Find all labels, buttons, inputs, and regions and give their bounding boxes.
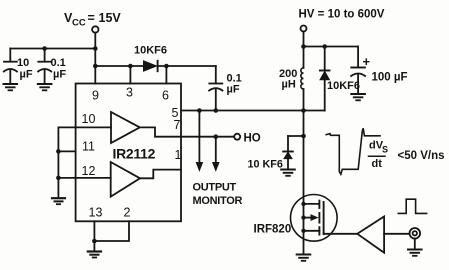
label 0.1 uF xyxy=(51,57,67,81)
svg-text:=: = xyxy=(88,11,95,25)
svg-text:S: S xyxy=(382,145,388,155)
terminal VCC xyxy=(92,26,98,32)
svg-text:15V: 15V xyxy=(99,11,122,25)
node HO monitor tap xyxy=(214,134,219,139)
wire pin 2 xyxy=(94,221,129,241)
node VS monitor tap xyxy=(197,108,202,113)
node VCC row junction xyxy=(93,64,98,69)
ground input bus xyxy=(52,198,65,204)
wire VCC vertical to pin 9 xyxy=(94,33,96,84)
pulse waveform input xyxy=(398,199,426,213)
wire top-left cap rail xyxy=(10,48,95,50)
svg-text:10KF6: 10KF6 xyxy=(134,45,167,57)
Q1 channel segments xyxy=(318,201,320,235)
wire pin 7 HO line xyxy=(181,136,234,138)
svg-text:12: 12 xyxy=(82,164,96,178)
wire HV rail xyxy=(304,46,359,48)
wire HV vertical xyxy=(303,32,305,47)
capacitor C1 10uF xyxy=(4,49,17,84)
svg-text:CC: CC xyxy=(72,18,86,29)
svg-text:11: 11 xyxy=(82,140,95,154)
svg-text:100 µF: 100 µF xyxy=(372,72,408,84)
svg-text:10: 10 xyxy=(82,112,96,126)
node pin 6 xyxy=(164,64,169,69)
node Q1 drain xyxy=(301,202,305,206)
probe arrow VS monitor xyxy=(196,111,202,171)
node C2 junction xyxy=(42,46,47,51)
wire VCC row to diode anode xyxy=(95,65,143,67)
label 0.1 uF (C3) xyxy=(227,73,242,96)
wire to ground xyxy=(93,241,95,251)
terminal HO xyxy=(234,134,240,140)
svg-text:µF: µF xyxy=(53,69,66,81)
wire to D3 xyxy=(288,135,304,137)
svg-text:µF: µF xyxy=(20,69,33,81)
ground under C1 xyxy=(4,84,18,90)
label dVs/dt fraction xyxy=(369,140,388,171)
svg-text:1: 1 xyxy=(175,148,182,162)
node pin13/2 junction xyxy=(92,239,97,244)
Q1 source bar xyxy=(304,230,320,232)
svg-text:µH: µH xyxy=(282,79,296,91)
node pin 3 xyxy=(128,64,133,69)
terminal HV xyxy=(301,26,307,32)
svg-text:13: 13 xyxy=(89,206,103,220)
capacitor C4 100uF xyxy=(351,47,365,94)
ground IC common xyxy=(88,252,101,258)
terminal J1 coax xyxy=(410,228,421,239)
buffer A1 (high side) xyxy=(111,112,140,143)
node VCC/cap junction xyxy=(93,46,98,51)
wire A2 output to pin 1 xyxy=(140,170,181,179)
node VS/L1 junction xyxy=(301,108,306,113)
wire diode cathode to C3 xyxy=(158,65,216,67)
svg-text:6: 6 xyxy=(162,89,169,103)
wire pin 10 input xyxy=(58,126,111,128)
svg-text:10: 10 xyxy=(17,57,29,69)
svg-text:3: 3 xyxy=(126,86,133,100)
buffer A3 gate driver xyxy=(357,217,384,253)
node HV/D2 xyxy=(322,44,327,49)
diode D3 10KF6 clamp xyxy=(283,136,293,169)
label OUTPUT MONITOR xyxy=(193,182,243,208)
svg-text:10 KF6: 10 KF6 xyxy=(248,159,283,171)
svg-text:HV = 10 to 600V: HV = 10 to 600V xyxy=(299,9,385,21)
svg-text:2: 2 xyxy=(124,206,131,220)
wire pin 5 VS line xyxy=(181,110,325,112)
ground under C2 xyxy=(38,84,52,90)
svg-text:µF: µF xyxy=(227,84,240,96)
ground under C4 xyxy=(351,94,365,100)
node Q1 source xyxy=(301,229,305,233)
node pin 12 junction xyxy=(56,176,61,181)
node pin 11 junction xyxy=(56,149,61,154)
wire input bus xyxy=(57,127,59,197)
svg-text:OUTPUT: OUTPUT xyxy=(193,182,237,194)
MOSFET Q1 IRF820 circle xyxy=(291,195,338,242)
svg-text:7: 7 xyxy=(174,118,181,132)
wire drain line xyxy=(303,111,305,242)
inductor L1 200uH xyxy=(301,47,304,111)
svg-text:MONITOR: MONITOR xyxy=(193,195,243,207)
svg-text:0.1: 0.1 xyxy=(51,57,66,69)
Q1 body arrow xyxy=(304,215,318,220)
svg-text:IR2112: IR2112 xyxy=(113,146,156,162)
svg-text:dt: dt xyxy=(372,158,383,170)
wire pin 11 input xyxy=(58,150,75,152)
Q1 gate bar xyxy=(323,202,325,234)
wire gate lead xyxy=(324,233,357,235)
node HV/L1 xyxy=(301,44,306,49)
ground under J1 xyxy=(408,250,422,256)
Q1 drain bar xyxy=(304,203,319,205)
node drain/D3 tap xyxy=(301,134,306,139)
buffer A2 (low side) xyxy=(111,162,140,197)
svg-text:<50 V/ns: <50 V/ns xyxy=(398,150,445,162)
svg-text:+: + xyxy=(363,54,371,69)
wire pin 3 xyxy=(129,66,131,84)
capacitor C2 0.1uF xyxy=(38,49,51,84)
wire source to ground xyxy=(303,241,305,254)
diode D1 10KF6 bootstrap xyxy=(144,61,158,71)
waveform dVs/dt scope trace xyxy=(326,128,380,174)
capacitor C3 0.1uF bootstrap xyxy=(209,66,222,111)
node C3 to VS xyxy=(214,108,219,113)
wire pin 12 input xyxy=(58,177,110,179)
svg-text:IRF820: IRF820 xyxy=(254,224,292,236)
label 10 uF xyxy=(17,57,33,81)
wire J1 to ground xyxy=(414,239,416,249)
node Q1 body tap xyxy=(301,215,305,219)
svg-text:HO: HO xyxy=(244,133,261,145)
wire A3 input xyxy=(384,233,409,235)
wire A1 output to pin 7 xyxy=(140,127,181,136)
probe arrow HO monitor xyxy=(213,137,219,171)
svg-text:10KF6: 10KF6 xyxy=(327,80,360,92)
label 200 uH xyxy=(279,68,297,91)
diode D2 10KF6 freewheel xyxy=(320,47,330,111)
IC U1 IR2112 box xyxy=(76,84,181,222)
label VCC = 15V xyxy=(64,11,121,29)
ground under Q1 source xyxy=(297,255,311,261)
wire pin 13 xyxy=(93,221,95,241)
ground under D3 xyxy=(281,170,295,176)
svg-text:9: 9 xyxy=(92,89,99,103)
fraction bar xyxy=(369,155,386,157)
wire pin 6 xyxy=(165,66,167,84)
